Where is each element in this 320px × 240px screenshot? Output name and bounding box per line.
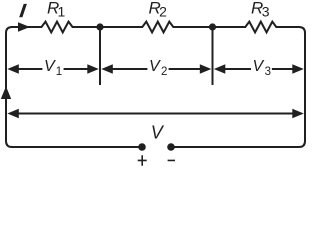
- terminal - dot: [167, 143, 175, 151]
- svg-text:2: 2: [161, 66, 167, 78]
- svg-text:V: V: [44, 58, 56, 75]
- V1 dimension arrow: [7, 64, 18, 74]
- label plus: [138, 155, 147, 166]
- svg-text:2: 2: [159, 3, 167, 19]
- wire node A drop bar: [99, 27, 101, 85]
- node B junction dot after R2: [209, 23, 216, 30]
- terminal + dot: [138, 143, 146, 151]
- current arrow I: [18, 22, 30, 32]
- svg-text:3: 3: [262, 3, 270, 19]
- svg-text:V: V: [149, 58, 161, 75]
- wire node B drop bar: [212, 27, 214, 85]
- svg-text:1: 1: [56, 66, 62, 78]
- svg-text:1: 1: [58, 3, 66, 19]
- label minus: [168, 159, 175, 161]
- svg-text:3: 3: [265, 66, 271, 78]
- current direction up arrow on left wire: [1, 86, 11, 99]
- svg-text:V: V: [253, 58, 265, 75]
- label I: [19, 4, 27, 17]
- total V dimension arrow: [7, 109, 18, 119]
- node A junction dot after R1: [96, 23, 103, 30]
- V2 dimension arrow: [101, 64, 113, 74]
- V3 dimension arrow: [214, 64, 226, 74]
- svg-text:V: V: [151, 123, 165, 143]
- wire main loop with resistor zigzags: [6, 22, 305, 147]
